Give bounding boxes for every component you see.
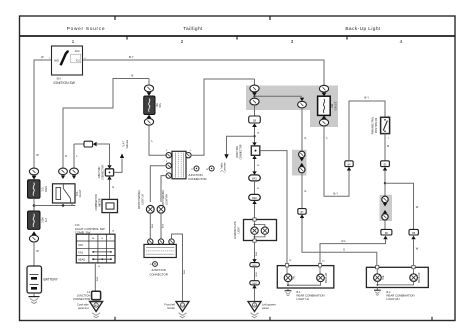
wire meter to light control switch xyxy=(109,213,111,235)
svg-text:JUNCTION: JUNCTION xyxy=(99,166,101,178)
svg-text:IGNITION SW: IGNITION SW xyxy=(54,81,76,85)
junction connector pin ring 3 xyxy=(166,173,171,178)
svg-text:MAIN: MAIN xyxy=(45,186,48,192)
svg-text:B-Y: B-Y xyxy=(129,55,134,59)
node symbol J8 xyxy=(206,166,214,171)
svg-text:W-B: W-B xyxy=(97,276,99,281)
svg-text:W-B: W-B xyxy=(256,251,258,256)
svg-text:3: 3 xyxy=(291,39,294,45)
wire B net tail fuse to relay xyxy=(63,79,149,168)
wire relay coil feed xyxy=(73,144,75,168)
ground rear combination LH xyxy=(285,288,292,296)
svg-text:Power Source: Power Source xyxy=(67,26,106,32)
connector triangle below B8 xyxy=(411,236,415,240)
connector triangle below J6 xyxy=(252,156,256,160)
svg-text:FRONT PARKING: FRONT PARKING xyxy=(138,190,141,209)
connector triangle xyxy=(147,92,152,96)
svg-text:LICENSE PLATE: LICENSE PLATE xyxy=(234,221,237,239)
connector triangle below 2B xyxy=(252,123,257,127)
connector ring below GAUGE fuse xyxy=(319,119,328,126)
svg-text:W-B: W-B xyxy=(152,223,154,228)
connector triangle xyxy=(300,163,304,167)
svg-text:BACK-UP: BACK-UP xyxy=(325,272,328,283)
wire license light to ground connectors xyxy=(254,242,256,259)
section tick top 2 xyxy=(269,16,271,20)
junction node to rear feed xyxy=(253,95,255,97)
svg-text:Front left: Front left xyxy=(164,302,175,306)
arrow to A/T indicator xyxy=(120,153,124,158)
inline connector B5 xyxy=(381,161,390,167)
connector triangle below GAUGE fuse xyxy=(322,115,327,119)
connector triangle xyxy=(252,92,257,96)
inline connector B7 xyxy=(298,209,306,215)
connector triangle below ALT xyxy=(32,231,37,235)
wire J7 to combination meter xyxy=(109,180,111,200)
junction node back-up branch xyxy=(384,182,386,184)
junction connector J5 body xyxy=(144,244,176,257)
svg-text:W: W xyxy=(416,247,419,251)
svg-text:AM2: AM2 xyxy=(54,59,60,62)
svg-text:HEAD: HEAD xyxy=(78,258,85,262)
svg-text:Back-Up Light: Back-Up Light xyxy=(345,26,381,32)
connector triangle rear feed top xyxy=(300,98,304,102)
wire J5 to body ground xyxy=(172,234,183,301)
junction connector J7 xyxy=(105,169,113,176)
svg-text:G: G xyxy=(112,185,114,189)
wire branch to A/T indicator xyxy=(114,158,122,172)
wire branch to rear RH feed xyxy=(255,95,303,97)
wire branch to RH back-up xyxy=(385,183,414,229)
wire to inline connector xyxy=(254,105,256,116)
connector ring above fusible link MAIN xyxy=(29,168,38,175)
bulb front parking light RH xyxy=(157,205,165,213)
inline connector BR2 xyxy=(249,194,261,200)
connector ring above TAIL fuse xyxy=(144,85,153,92)
connector triangle xyxy=(252,285,256,289)
connector triangle below B5 xyxy=(383,167,387,171)
svg-text:CONNECTOR: CONNECTOR xyxy=(241,144,243,159)
svg-text:CONNECTOR: CONNECTOR xyxy=(149,272,168,276)
connector triangle below B7 xyxy=(300,214,304,218)
connector ring relay pin 3 xyxy=(70,168,79,175)
svg-text:TAIL: TAIL xyxy=(159,102,162,108)
svg-text:To A/T: To A/T xyxy=(123,140,126,147)
svg-text:ACC: ACC xyxy=(75,50,80,53)
connector ring above GAUGE fuse xyxy=(319,85,328,92)
wire J6 to rear LH tail pin xyxy=(260,151,287,264)
connector triangle xyxy=(300,158,304,162)
svg-text:fender: fender xyxy=(167,306,175,310)
svg-text:W-B: W-B xyxy=(163,223,165,228)
svg-text:Indicator: Indicator xyxy=(126,139,129,148)
svg-text:LIGHT LH: LIGHT LH xyxy=(143,194,145,205)
junction node battery feed xyxy=(33,204,36,207)
wire parking RH to ground connector xyxy=(160,213,162,239)
gray harness band back-up connector xyxy=(380,195,393,221)
connector ring back-up upper xyxy=(382,196,388,202)
wire to front parking LH xyxy=(150,166,166,202)
svg-text:IG1: IG1 xyxy=(76,59,81,62)
junction node trailer branch xyxy=(253,135,255,137)
wire between connectors xyxy=(254,181,256,195)
svg-text:OFF: OFF xyxy=(78,243,84,247)
svg-text:G: G xyxy=(304,189,306,193)
connector triangle J7 top xyxy=(107,165,111,169)
section tick top 1 xyxy=(114,16,116,20)
svg-text:To Trailer: To Trailer xyxy=(220,163,223,173)
svg-text:J-4: J-4 xyxy=(87,290,91,294)
wire ignition AM2 to main feed xyxy=(34,60,52,168)
battery xyxy=(27,266,42,293)
relay pin wires to bus xyxy=(62,203,64,206)
connector ring back-up lower xyxy=(382,214,388,220)
wire gauge fuse to park/neutral switch xyxy=(324,126,349,196)
connector triangle xyxy=(383,210,387,214)
svg-text:B: B xyxy=(132,74,134,78)
connector triangle xyxy=(252,259,256,263)
rear combination light LH xyxy=(277,264,334,288)
inline connector BR1 xyxy=(249,175,261,181)
svg-text:ALT: ALT xyxy=(45,217,48,222)
rear combination light RH xyxy=(366,265,428,287)
svg-text:CONNECTOR: CONNECTOR xyxy=(188,177,207,181)
svg-text:Converter: Converter xyxy=(224,162,227,172)
wire to J7 corner xyxy=(97,144,110,165)
svg-text:B: B xyxy=(387,144,389,148)
connector triangle below TAIL fuse xyxy=(147,115,152,119)
wire xyxy=(254,267,256,281)
fuse TAIL 15A xyxy=(144,96,155,115)
wire ignition IG1 B-Y run xyxy=(83,60,325,85)
bulb front parking light LH xyxy=(146,205,154,213)
svg-text:GAUGE: GAUGE xyxy=(334,101,337,110)
svg-text:W: W xyxy=(416,205,419,209)
fuse GAUGE 10A xyxy=(318,96,331,115)
svg-text:BR1: BR1 xyxy=(252,178,257,181)
junction connector pin ring 1 xyxy=(166,153,171,158)
ground rear combination RH xyxy=(374,288,381,296)
junction connector J6 xyxy=(251,146,259,155)
wire junction connector to taillight feed xyxy=(191,79,254,155)
junction connector J6 vertical xyxy=(172,151,186,179)
column tick 3 xyxy=(346,36,348,40)
connector ring taillight feed upper xyxy=(250,85,259,92)
junction connector J4 xyxy=(92,291,101,299)
inline connector BS1 xyxy=(250,263,260,267)
inline connector BS2 xyxy=(250,281,260,285)
svg-text:B-Y: B-Y xyxy=(334,191,339,195)
connector triangle xyxy=(32,176,37,180)
svg-text:R-L: R-L xyxy=(342,239,347,243)
wire to connector B6 xyxy=(384,220,386,229)
bottom tick 1 xyxy=(114,317,116,320)
connector ring below ALT xyxy=(29,235,38,242)
svg-text:2B: 2B xyxy=(253,118,256,122)
connector ring below TAIL fuse xyxy=(144,118,153,125)
svg-text:LIGHT RH: LIGHT RH xyxy=(166,194,168,205)
ground point cowl side panel LH xyxy=(90,300,103,318)
wire rear feed down xyxy=(301,108,303,151)
wire J6 to license connectors xyxy=(254,159,256,172)
svg-text:Left quarter: Left quarter xyxy=(262,302,276,306)
svg-text:1: 1 xyxy=(72,39,75,45)
inline connector pair rear LH ring upper xyxy=(299,151,305,157)
inline connector triangle xyxy=(93,142,97,147)
wire down to J6 xyxy=(254,127,256,142)
svg-text:LIGHT RH: LIGHT RH xyxy=(387,297,400,301)
wire to battery xyxy=(33,242,35,266)
wire B4 up to switch xyxy=(349,101,385,161)
fusible link MAIN xyxy=(28,180,41,198)
wire branch to trailer converter xyxy=(227,136,255,154)
gray harness band taillight xyxy=(246,86,338,128)
svg-text:Taillight: Taillight xyxy=(183,26,203,32)
wire taillight feed drop xyxy=(254,79,256,85)
wire parking LH to ground connector xyxy=(149,213,151,239)
ground point left quarter panel xyxy=(248,302,261,318)
ground point front left fender xyxy=(176,302,189,318)
connector triangle below B4 xyxy=(347,167,351,171)
svg-text:CONNECTOR: CONNECTOR xyxy=(103,165,105,180)
wire between fusible links xyxy=(33,198,35,211)
wire back-up feed down xyxy=(384,171,386,197)
svg-text:TAIL: TAIL xyxy=(78,250,84,254)
svg-text:G: G xyxy=(304,136,306,140)
svg-text:PARK/NEUTRAL: PARK/NEUTRAL xyxy=(371,116,374,134)
connector triangle relay pin 3 xyxy=(72,175,76,179)
wire B8 to rear RH back-up pin xyxy=(413,239,415,267)
svg-text:panel: panel xyxy=(262,306,269,310)
connector triangle below B6 xyxy=(383,236,387,240)
inline connector 1E xyxy=(84,141,93,147)
license plate light xyxy=(244,218,277,242)
relay TAIL RELAY xyxy=(53,184,76,203)
svg-text:B-Y: B-Y xyxy=(365,96,370,100)
connector ring relay pin 5 xyxy=(59,168,68,175)
svg-text:JUNCTION: JUNCTION xyxy=(77,294,91,298)
ignition switch S14 xyxy=(49,46,86,75)
arrow to trailer converter xyxy=(224,154,228,159)
wire branch to tail relay xyxy=(34,205,76,207)
wire to left quarter panel ground xyxy=(254,288,256,301)
wire to connector B7 xyxy=(301,173,303,209)
connector triangle xyxy=(252,171,256,175)
inline connector B4 xyxy=(345,161,353,167)
svg-text:RELAY: RELAY xyxy=(79,189,82,197)
connector triangle xyxy=(252,201,256,205)
svg-text:LIGHT LH: LIGHT LH xyxy=(297,297,310,301)
wire tail fuse to junction connector xyxy=(149,125,166,155)
svg-text:4: 4 xyxy=(400,39,403,45)
wire B7 to rear RH tail pin xyxy=(302,218,377,267)
header separator line xyxy=(19,35,455,37)
svg-text:METER: METER xyxy=(99,198,101,206)
bottom tick 2 xyxy=(269,317,271,320)
connector triangle J7 bottom xyxy=(107,176,111,180)
bottom tick 3 xyxy=(431,317,433,320)
junction connector pin ring right xyxy=(186,153,191,158)
connector triangle relay pin 5 xyxy=(61,175,65,179)
inline connector B6 xyxy=(381,229,392,235)
svg-text:POSITION SW: POSITION SW xyxy=(376,117,378,133)
inline connector 2B xyxy=(249,116,261,123)
junction node relay xyxy=(62,204,65,207)
svg-text:panel LH: panel LH xyxy=(78,306,89,310)
wire light control sw to J4 xyxy=(94,263,96,291)
svg-text:JUNCTION: JUNCTION xyxy=(237,146,239,158)
svg-text:CONNECTOR: CONNECTOR xyxy=(73,297,90,301)
wire B6 to rear LH back-up pin xyxy=(320,239,386,265)
svg-text:BACK-UP: BACK-UP xyxy=(418,272,421,283)
wire to front parking RH xyxy=(161,176,166,202)
wire relay coil horizontal xyxy=(74,143,84,145)
svg-text:W-B: W-B xyxy=(256,272,258,277)
svg-text:BR2: BR2 xyxy=(252,197,257,200)
connector triangle above J6 xyxy=(252,142,256,146)
connector ring taillight feed lower xyxy=(250,98,259,105)
fusible link ALT xyxy=(28,211,41,229)
svg-text:BATTERY: BATTERY xyxy=(44,278,59,282)
svg-text:E2: E2 xyxy=(95,305,97,307)
connector triangle xyxy=(322,93,327,97)
inline connector B8 xyxy=(409,229,418,235)
junction connector J5 pin rings xyxy=(148,239,175,244)
column tick 1 xyxy=(126,36,128,40)
combination meter tail indicator xyxy=(102,199,118,212)
light control switch table xyxy=(76,234,115,263)
svg-text:W: W xyxy=(36,249,39,253)
svg-text:TAIL: TAIL xyxy=(382,275,385,280)
battery ground xyxy=(29,293,40,304)
svg-text:LIGHT: LIGHT xyxy=(238,226,240,233)
connector triangle xyxy=(383,203,387,207)
inline connector pair rear LH ring lower xyxy=(299,166,305,172)
wire B-Y drop to tail fuse xyxy=(148,79,150,86)
wire switch to connector xyxy=(384,134,386,161)
gray harness band rear LH connector xyxy=(292,150,307,176)
svg-text:2: 2 xyxy=(181,39,184,45)
node symbol J7 xyxy=(191,166,199,171)
park/neutral position switch xyxy=(381,117,390,133)
svg-text:W: W xyxy=(36,153,39,157)
svg-text:COMBINATION: COMBINATION xyxy=(95,194,98,210)
connector ring rear feed xyxy=(298,101,307,108)
svg-text:TAIL: TAIL xyxy=(293,275,296,280)
column tick 2 xyxy=(236,36,238,40)
junction connector pin ring 2 xyxy=(166,163,171,168)
svg-text:W-B: W-B xyxy=(184,269,186,274)
wire to license plate light xyxy=(254,204,256,220)
svg-text:G: G xyxy=(343,247,345,251)
svg-text:Cowl side: Cowl side xyxy=(77,303,89,307)
node symbol J5 xyxy=(149,262,157,267)
